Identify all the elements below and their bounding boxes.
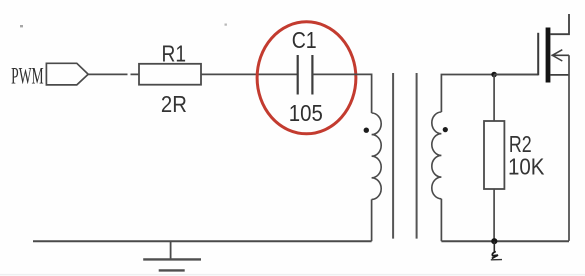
transistor Q1 body lead with arrow [552,54,570,56]
speck artifact above ellipse [225,24,227,26]
transformer primary winding L1 [372,113,382,199]
speck artifact top left [20,25,23,27]
wire secondary top [441,75,538,113]
transformer core lines [392,73,394,239]
red annotation ellipse [257,22,356,134]
svg-text:C1: C1 [292,27,317,53]
resistor R2 [484,121,504,189]
junction node bottom [491,238,497,244]
transformer secondary winding L2 [432,112,442,199]
wire primary bottom to ground rail [371,199,373,241]
transistor Q1 gate line [537,33,539,76]
bottom edge light line [0,274,585,276]
capacitor C1 [297,55,299,95]
net stub with arrow mark below junction [493,241,495,252]
transistor Q1 drain lead [550,14,569,34]
bottom rail right (secondary side) [441,240,569,242]
svg-text:PWM: PWM [11,63,44,88]
svg-text:2R: 2R [161,91,187,117]
resistor R1 [139,64,201,85]
primary phase dot [364,128,369,133]
wire PWM tag to R1 [88,73,139,75]
junction node top (gate/R2) [491,72,497,78]
wire source down to bottom rail [568,55,570,241]
ground symbol [170,241,172,259]
wire C1 to transformer primary [312,74,371,113]
secondary phase dot [443,127,448,132]
svg-text:105: 105 [289,100,323,126]
wire junction down to R2 [493,75,495,122]
transistor Q1 channel bar [546,28,551,83]
bottom rail left (ground side) [33,240,372,242]
wire secondary bottom [440,199,442,241]
transistor Q1 source lead [550,74,569,76]
PWM input port tag [46,63,88,85]
wire R1 to C1 [201,73,298,75]
wire R2 bottom [493,189,495,241]
transistor Q1 gate wire [494,74,538,76]
svg-text:R1: R1 [162,40,187,66]
svg-text:10K: 10K [508,154,545,180]
